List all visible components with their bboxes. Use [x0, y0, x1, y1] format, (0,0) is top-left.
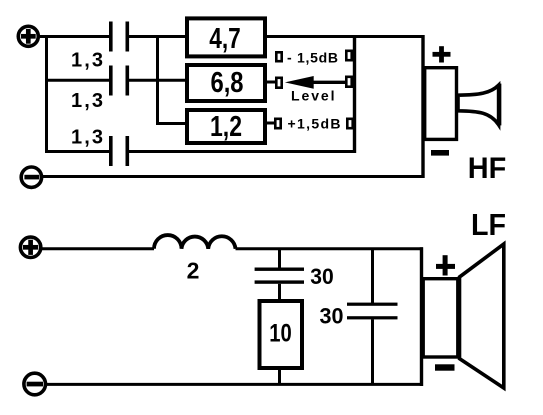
svg-text:- 1,5dB: - 1,5dB — [287, 49, 338, 65]
svg-text:30: 30 — [320, 304, 344, 329]
svg-text:10: 10 — [269, 320, 292, 348]
svg-text:1,3: 1,3 — [71, 90, 103, 112]
svg-text:+1,5dB: +1,5dB — [288, 115, 341, 131]
svg-text:Level: Level — [291, 87, 335, 103]
svg-text:1,3: 1,3 — [71, 50, 103, 72]
svg-text:2: 2 — [187, 258, 200, 284]
svg-text:1,3: 1,3 — [71, 127, 103, 149]
svg-text:4,7: 4,7 — [209, 23, 241, 55]
svg-text:30: 30 — [310, 264, 334, 289]
svg-text:HF: HF — [468, 152, 507, 185]
svg-text:LF: LF — [471, 207, 506, 242]
svg-text:6,8: 6,8 — [211, 67, 244, 99]
svg-text:1,2: 1,2 — [210, 111, 242, 143]
